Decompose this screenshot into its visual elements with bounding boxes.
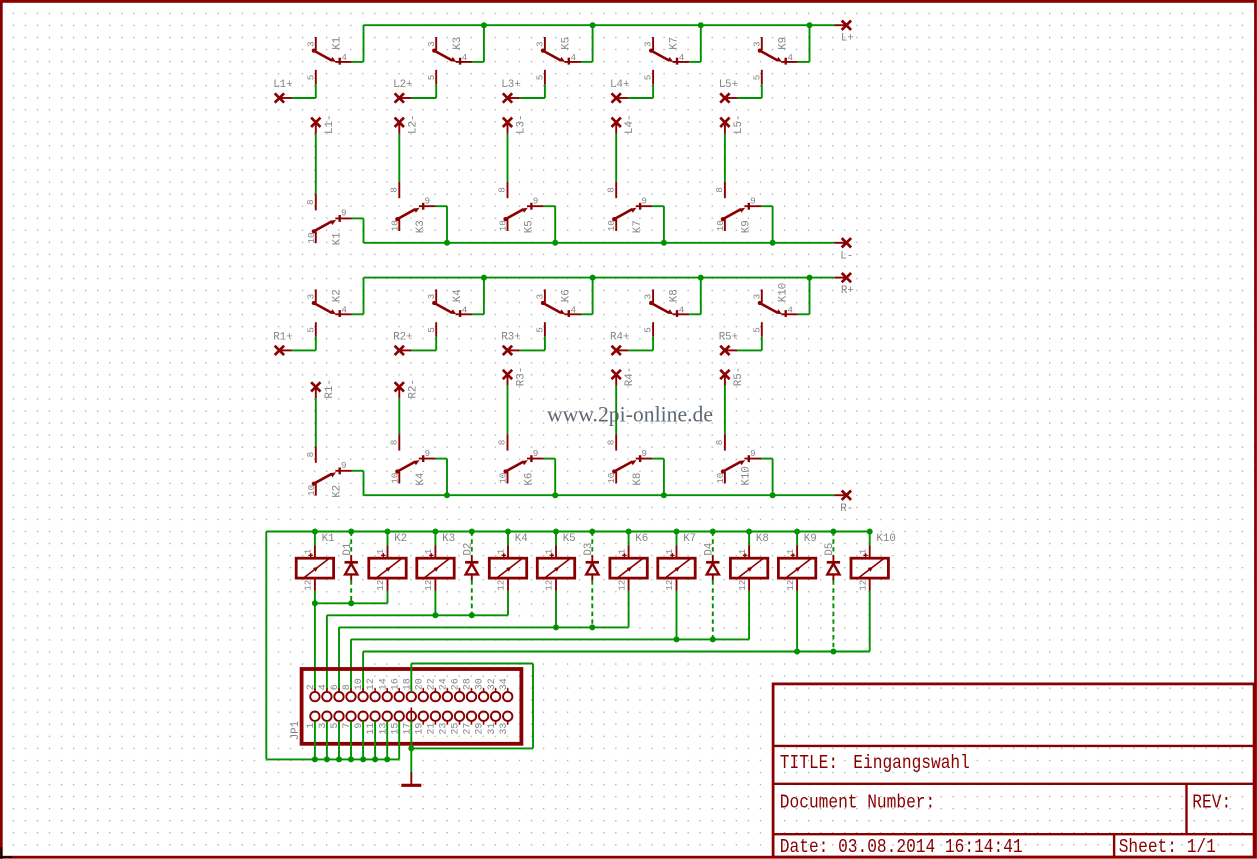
wire JP1 ground bus xyxy=(266,758,399,760)
pin 6 of JP1 xyxy=(334,688,343,701)
label designator K6 xyxy=(635,533,648,545)
relay coil K3 xyxy=(417,558,454,578)
wire L- rail xyxy=(364,242,835,244)
tick on pin 9 of K7 xyxy=(639,203,641,210)
pin 15 of JP1 xyxy=(395,712,404,725)
label net L5+ xyxy=(719,79,738,91)
pin 26 of JP1 xyxy=(455,688,464,701)
pin 18 of JP1 xyxy=(407,688,416,701)
svg-text:30: 30 xyxy=(475,678,486,690)
node R5+ xyxy=(720,346,729,355)
wire R2+ to pin5 column xyxy=(411,349,436,351)
wire riser K4 to R+ rail xyxy=(483,278,485,315)
pin 9 of K7 xyxy=(636,205,653,207)
wire stub R4- xyxy=(615,375,617,386)
svg-text:K7: K7 xyxy=(632,220,644,233)
svg-text:1: 1 xyxy=(785,548,796,554)
wire pin 13 of JP1 to bus xyxy=(386,721,388,760)
svg-text:10: 10 xyxy=(498,220,509,231)
svg-text:12: 12 xyxy=(496,580,507,591)
wire riser K3 to L- rail xyxy=(446,206,448,243)
wire bus drop at left xyxy=(265,532,267,760)
svg-text:R3+: R3+ xyxy=(501,331,520,343)
pin 12 of K1 xyxy=(314,578,316,590)
svg-text:www.2pi-online.de: www.2pi-online.de xyxy=(547,403,713,427)
pin number 10 of K7 xyxy=(606,220,617,231)
pin number 6 of JP1 xyxy=(330,684,341,690)
svg-text:10: 10 xyxy=(606,220,617,231)
svg-text:3: 3 xyxy=(643,41,654,47)
tick on pin 9 of K9 xyxy=(748,203,750,210)
pin 33 of JP1 xyxy=(503,712,512,725)
pin number 9 of JP1 xyxy=(354,723,365,729)
svg-text:K8: K8 xyxy=(669,289,681,302)
title block Sheet divider xyxy=(1113,834,1115,857)
wire riser K3 to L+ rail xyxy=(483,25,485,62)
wire stub L4+ xyxy=(616,97,628,99)
wire R4+ riser to pin5 xyxy=(652,337,654,351)
label net R2- xyxy=(407,379,419,398)
diode D4 xyxy=(706,562,719,574)
svg-text:Document Number:: Document Number: xyxy=(780,792,935,814)
wire pin9 of K6 to riser xyxy=(544,458,556,460)
svg-text:4: 4 xyxy=(787,305,793,316)
node L1+ xyxy=(275,93,284,102)
svg-text:3: 3 xyxy=(426,41,437,47)
svg-text:8: 8 xyxy=(342,684,353,690)
pin number 5 of K3 xyxy=(426,75,437,81)
contact arm of K1 xyxy=(312,49,336,63)
label net L4- xyxy=(624,115,636,134)
svg-text:R2+: R2+ xyxy=(393,331,412,343)
contact arm of K2 xyxy=(312,472,336,486)
pin number 9 of K10 xyxy=(750,448,756,459)
pin 1 of K1 xyxy=(314,546,316,559)
polarity mark of K7 xyxy=(670,553,674,557)
wire pin4 of K8 to rail xyxy=(689,313,701,315)
pin number 3 of K5 xyxy=(535,41,546,47)
junction bus at D4 xyxy=(710,529,716,535)
junction bus at K6 xyxy=(626,529,632,535)
junction L+ rail at K3 xyxy=(481,22,487,28)
pin 12 of K3 xyxy=(434,578,436,590)
wire stub L3- xyxy=(507,122,509,133)
svg-text:3: 3 xyxy=(426,294,437,300)
pin number 8 of K2 xyxy=(305,452,316,458)
junction L- rail at K7 xyxy=(661,240,667,246)
svg-text:K1: K1 xyxy=(332,232,344,245)
polarity mark of K6 xyxy=(622,553,626,557)
pin 9 of K9 xyxy=(744,205,761,207)
designator D4 xyxy=(704,543,716,556)
polarity mark of K8 xyxy=(743,553,747,557)
svg-text:L2+: L2+ xyxy=(393,79,412,91)
svg-text:19: 19 xyxy=(414,723,425,735)
pin 4 of JP1 xyxy=(322,688,331,701)
wire riser K2 to R+ rail xyxy=(363,278,365,315)
connector JP1 outline xyxy=(302,669,522,744)
tick on pin 4 of K9 xyxy=(785,58,787,65)
pin 10 of K2 xyxy=(315,484,317,496)
svg-text:K5: K5 xyxy=(523,220,535,233)
pin 3 of K1 xyxy=(315,37,317,50)
pin 28 of JP1 xyxy=(467,688,476,701)
contact arm of K7 xyxy=(649,49,673,63)
wire stub L5- xyxy=(724,122,726,133)
junction bus at K4 xyxy=(505,529,511,535)
pin number 8 of JP1 xyxy=(342,684,353,690)
wire stub L3+ xyxy=(508,97,520,99)
pin 9 of K8 xyxy=(636,458,653,460)
label REV xyxy=(1192,792,1231,814)
svg-text:12: 12 xyxy=(616,580,627,591)
wire pin9 of K7 to riser xyxy=(652,205,664,207)
svg-text:K2: K2 xyxy=(332,485,344,498)
pin 4 of K6 xyxy=(564,313,581,315)
node L- xyxy=(842,238,851,247)
node L5- xyxy=(720,118,729,127)
node R4- xyxy=(612,370,621,379)
svg-text:3: 3 xyxy=(643,294,654,300)
svg-text:1: 1 xyxy=(616,548,627,554)
pin 4 of K9 xyxy=(781,61,798,63)
pin 5 of K10 xyxy=(761,322,763,337)
junction bus at K9 xyxy=(794,529,800,535)
relay coil K5 xyxy=(537,558,574,578)
pin number 1 of JP1 xyxy=(306,723,317,729)
svg-text:4: 4 xyxy=(462,305,468,316)
tick on pin 9 of K10 xyxy=(748,455,750,462)
wire pin9 of K1 to riser xyxy=(352,217,364,219)
label designator K10 xyxy=(876,533,895,545)
svg-text:10: 10 xyxy=(306,232,317,243)
junction bus at pin 3 xyxy=(324,756,330,762)
label net R3- xyxy=(516,367,528,386)
relay coil K4 xyxy=(489,558,526,578)
polarity mark of K5 xyxy=(550,553,554,557)
wire pin12 of K9 to level xyxy=(796,591,798,652)
tick on pin 4 of K6 xyxy=(568,310,570,317)
relay coil K6 xyxy=(610,558,647,578)
label Document Number xyxy=(780,792,935,814)
wire pin9 of K3 to riser xyxy=(435,205,447,207)
designator K8 xyxy=(632,473,644,486)
wire bus to D3 (dashed) xyxy=(591,532,593,556)
pin 1 of K3 xyxy=(434,546,436,559)
junction level 2 at D2 xyxy=(469,612,475,618)
wire riser K10 to R- rail xyxy=(772,459,774,496)
wire bus to pin1 of K6 xyxy=(628,532,630,546)
node L2- xyxy=(395,118,404,127)
junction R- rail at K10 xyxy=(770,492,776,498)
wire R1+ to pin5 column xyxy=(292,349,316,351)
node R- xyxy=(842,491,851,500)
wire pin12 of K8 to level xyxy=(748,591,750,640)
svg-text:1: 1 xyxy=(496,548,507,554)
pin number 23 of JP1 xyxy=(439,723,450,735)
wire stub R2+ xyxy=(399,349,411,351)
contact arm of K8 xyxy=(612,460,636,474)
wire D5 to level (dashed) xyxy=(832,580,834,651)
wire R- rail xyxy=(364,494,835,496)
svg-text:22: 22 xyxy=(427,678,438,690)
designator K4 xyxy=(415,473,427,486)
pin number 12 of JP1 xyxy=(366,678,377,690)
wire R3+ to pin5 column xyxy=(520,349,545,351)
wire pin4 of K2 to rail xyxy=(352,313,364,315)
pin number 12 of K9 xyxy=(785,580,796,591)
svg-text:8: 8 xyxy=(714,440,725,446)
pin number 32 of JP1 xyxy=(487,678,498,690)
svg-text:12: 12 xyxy=(375,580,386,591)
wire R4+ to pin5 column xyxy=(628,349,653,351)
svg-text:D1: D1 xyxy=(342,543,354,556)
wire bus to pin1 of K7 xyxy=(676,532,678,546)
svg-text:8: 8 xyxy=(305,199,316,205)
pin 5 of K9 xyxy=(761,70,763,85)
pin number 9 of K2 xyxy=(341,460,347,471)
pin 4 of K10 xyxy=(781,313,798,315)
pin 5 of K7 xyxy=(652,70,654,85)
svg-text:K8: K8 xyxy=(756,533,769,545)
label net L2+ xyxy=(393,79,412,91)
junction L- rail at K5 xyxy=(552,240,558,246)
wire L5+ riser to pin5 xyxy=(761,84,763,98)
pin number 9 of K8 xyxy=(641,448,647,459)
svg-text:24: 24 xyxy=(439,678,450,690)
svg-text:L4+: L4+ xyxy=(610,79,629,91)
wire riser K8 to R+ rail xyxy=(700,278,702,315)
wire pin 7 of JP1 to bus xyxy=(350,721,352,760)
node R1- xyxy=(311,382,320,391)
pin 32 of JP1 xyxy=(491,688,500,701)
pin number 5 of JP1 xyxy=(330,723,341,729)
wire D4 to level (dashed) xyxy=(712,580,714,639)
contact arm of K10 xyxy=(721,460,745,474)
svg-text:5: 5 xyxy=(305,75,316,81)
svg-text:12: 12 xyxy=(303,580,314,591)
wire pin12 of K2 to level xyxy=(387,591,389,604)
label net L+ xyxy=(841,33,854,45)
pin number 10 of K2 xyxy=(306,485,317,496)
pin 8 of K7 xyxy=(615,182,617,198)
wire R3+ riser to pin5 xyxy=(544,337,546,351)
wire bus to pin1 of K10 xyxy=(869,532,871,546)
designator D1 xyxy=(342,543,354,556)
wire bus to pin1 of K4 xyxy=(507,532,509,546)
svg-text:9: 9 xyxy=(425,448,431,459)
label net R1- xyxy=(324,379,336,398)
wire pin9 of K10 to riser xyxy=(761,458,773,460)
junction level 3 at K5 xyxy=(553,624,559,630)
pin 8 of K2 xyxy=(315,446,317,462)
pin 3 of K6 xyxy=(544,289,546,302)
contact arm of K7 xyxy=(612,208,636,222)
pin 1 of K10 xyxy=(869,546,871,559)
wire pin 11 of JP1 to bus xyxy=(374,721,376,760)
wire R5- to pin8 xyxy=(724,386,726,434)
junction R- rail at K8 xyxy=(661,492,667,498)
anode pin of D2 xyxy=(471,574,473,580)
node R2+ xyxy=(395,346,404,355)
svg-text:Sheet: 1/1: Sheet: 1/1 xyxy=(1119,837,1216,859)
wire bus to D5 (dashed) xyxy=(832,532,834,556)
label designator K3 xyxy=(442,533,455,545)
svg-text:TITLE:: TITLE: xyxy=(780,753,838,775)
svg-text:26: 26 xyxy=(451,678,462,690)
wire L+ rail xyxy=(364,24,835,26)
diode D5 xyxy=(827,562,840,574)
junction bus at K7 xyxy=(674,529,680,535)
junction L+ rail at K7 xyxy=(698,22,704,28)
svg-text:L1+: L1+ xyxy=(273,79,292,91)
pin 5 of K2 xyxy=(315,322,317,337)
pin number 3 of K6 xyxy=(535,294,546,300)
wire pin 5 of JP1 to bus xyxy=(338,721,340,760)
contact arm of K9 xyxy=(758,49,782,63)
pin number 3 of K3 xyxy=(426,41,437,47)
pin number 3 of K10 xyxy=(751,294,762,300)
wire level 4 drop to JP1 xyxy=(350,639,352,692)
node L4- xyxy=(612,118,621,127)
pin 4 of K2 xyxy=(335,313,352,315)
svg-text:12: 12 xyxy=(664,580,675,591)
wire pin12 of K1 down to JP1 xyxy=(314,591,316,692)
designator K5 xyxy=(561,37,573,50)
node R5- xyxy=(720,370,729,379)
svg-text:L+: L+ xyxy=(841,33,854,45)
wire stub R+ xyxy=(834,277,846,279)
junction R- rail at K4 xyxy=(444,492,450,498)
svg-text:3: 3 xyxy=(305,41,316,47)
junction bus at K10 xyxy=(867,529,873,535)
junction bus at D5 xyxy=(830,529,836,535)
pin 13 of JP1 xyxy=(383,712,392,725)
svg-text:25: 25 xyxy=(451,723,462,735)
pin 9 of JP1 xyxy=(358,712,367,725)
node L2+ xyxy=(395,93,404,102)
pin 10 of K10 xyxy=(724,472,726,484)
svg-text:R-: R- xyxy=(840,503,853,515)
pin 4 of K1 xyxy=(335,61,352,63)
node R1+ xyxy=(275,346,284,355)
pin number 1 of K8 xyxy=(737,548,748,554)
wire L2+ riser to pin5 xyxy=(435,84,437,98)
pin 12 of K4 xyxy=(507,578,509,590)
svg-text:K3: K3 xyxy=(415,220,427,233)
junction bus at pin 11 xyxy=(372,756,378,762)
tick on pin 9 of K8 xyxy=(639,455,641,462)
designator D3 xyxy=(583,543,595,556)
pin number 8 of K7 xyxy=(605,187,616,193)
tick on pin 4 of K5 xyxy=(568,58,570,65)
wire pin4 of K4 to rail xyxy=(472,313,484,315)
pin 16 of JP1 xyxy=(395,688,404,701)
wire riser K7 to L+ rail xyxy=(700,25,702,62)
pin 1 of K8 xyxy=(748,546,750,559)
wire stub R1- xyxy=(315,387,317,398)
wire stub R4+ xyxy=(616,349,628,351)
pin number 10 of K6 xyxy=(498,473,509,484)
wire pin12 of K7 to level xyxy=(676,591,678,640)
svg-text:R4+: R4+ xyxy=(610,331,629,343)
svg-text:5: 5 xyxy=(535,75,546,81)
pin number 1 of K1 xyxy=(303,548,314,554)
pin 5 of K8 xyxy=(652,322,654,337)
pin 10 of K8 xyxy=(615,472,617,484)
wire R4- to pin8 xyxy=(615,386,617,434)
junction R+ rail at K4 xyxy=(481,275,487,281)
svg-text:33: 33 xyxy=(499,723,510,735)
pin 29 of JP1 xyxy=(479,712,488,725)
svg-text:K9: K9 xyxy=(741,220,753,233)
polarity mark of K3 xyxy=(429,553,433,557)
wire riser K2 to R- rail xyxy=(363,471,365,495)
wire riser K5 to L+ rail xyxy=(592,25,594,62)
corner crop mark xyxy=(0,847,12,859)
label designator K1 xyxy=(322,533,335,545)
pin 12 of K9 xyxy=(796,578,798,590)
pin number 10 of K8 xyxy=(606,473,617,484)
designator K6 xyxy=(523,473,535,486)
contact arm of K3 xyxy=(395,208,419,222)
label designator K8 xyxy=(756,533,769,545)
wire level 5 net xyxy=(363,651,870,653)
node R2- xyxy=(395,382,404,391)
pin number 11 of JP1 xyxy=(366,723,377,735)
contact arm of K2 xyxy=(312,301,336,315)
wire pin 18 loop top xyxy=(411,663,533,665)
svg-text:1: 1 xyxy=(857,548,868,554)
wire riser K8 to R- rail xyxy=(663,459,665,496)
wire L2+ to pin5 column xyxy=(411,97,436,99)
wire pin 17 of JP1 to ground xyxy=(410,721,412,749)
anode pin of D4 xyxy=(712,574,714,580)
junction level 3 at D3 xyxy=(589,624,595,630)
svg-text:D5: D5 xyxy=(824,543,836,556)
wire pin12 of K10 to level xyxy=(869,591,871,652)
junction ground node xyxy=(408,745,414,751)
junction bus at pin 9 xyxy=(360,756,366,762)
wire pin4 of K7 to rail xyxy=(689,61,701,63)
pin number 12 of K2 xyxy=(375,580,386,591)
wire L4- to pin8 xyxy=(615,134,617,182)
pin 8 of K1 xyxy=(315,194,317,210)
junction L- rail at K9 xyxy=(770,240,776,246)
wire L3- to pin8 xyxy=(507,134,509,182)
designator D2 xyxy=(462,543,474,556)
wire bus to pin1 of K1 xyxy=(314,532,316,546)
diode D2 xyxy=(465,562,478,574)
contact arm of K6 xyxy=(541,301,565,315)
svg-text:4: 4 xyxy=(787,52,793,63)
wire pin9 of K2 to riser xyxy=(352,470,364,472)
node L3- xyxy=(503,118,512,127)
pin 8 of K6 xyxy=(507,434,509,450)
pin 24 of JP1 xyxy=(443,688,452,701)
junction bus at D3 xyxy=(589,529,595,535)
wire relay supply bus xyxy=(266,531,869,533)
junction R+ rail at K8 xyxy=(698,275,704,281)
pin 8 of K3 xyxy=(398,182,400,198)
relay coil K1 xyxy=(296,558,333,578)
pin number 5 of K9 xyxy=(751,75,762,81)
pin number 19 of JP1 xyxy=(414,723,425,735)
pin number 1 of K5 xyxy=(544,548,555,554)
label net R5+ xyxy=(719,331,738,343)
pin 2 of JP1 xyxy=(310,688,319,701)
svg-text:R5+: R5+ xyxy=(719,331,738,343)
